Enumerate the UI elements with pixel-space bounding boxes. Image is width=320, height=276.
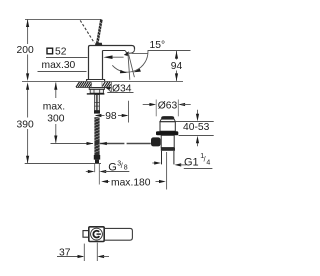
hole edges — [91, 82, 93, 88]
drain body below flange — [161, 135, 174, 147]
rod reference line left part — [51, 143, 94, 145]
dim line max.300 vertical — [55, 83, 57, 143]
arc arrowhead left pointing right — [120, 70, 127, 73]
15 deg label line — [148, 50, 191, 52]
svg-text:94: 94 — [171, 61, 183, 72]
svg-text:52: 52 — [55, 47, 67, 58]
side knob on drain — [151, 137, 161, 146]
top view: cartridge circle outer — [91, 228, 103, 240]
spout tip reference line — [132, 52, 148, 54]
svg-text:390: 390 — [17, 120, 34, 131]
label G1 1/4 with underline — [184, 153, 210, 168]
svg-text:Ø63: Ø63 — [158, 100, 178, 111]
arrow down 200 at deck — [26, 73, 29, 81]
arrow down 94 — [175, 73, 178, 81]
deck section hatch left — [76, 82, 92, 87]
svg-text:/: / — [204, 157, 206, 164]
arc arrowhead right pointing left — [134, 69, 141, 73]
spout outlet lip — [125, 50, 134, 54]
stud threaded section — [94, 117, 99, 155]
drain center line — [166, 152, 168, 190]
svg-text:max.180: max.180 — [111, 177, 151, 188]
knob flare — [160, 119, 176, 122]
drain body upper cylinder — [160, 122, 175, 132]
dim 37 line with label — [57, 256, 83, 258]
bottom reference line 390 — [25, 163, 101, 165]
svg-text:37: 37 — [59, 247, 71, 258]
svg-text:max.30: max.30 — [42, 60, 76, 71]
arrow right at stud on rod line — [87, 142, 94, 145]
label G3/8 — [108, 160, 128, 173]
top view: spout bar — [104, 228, 132, 240]
mounting nut — [90, 89, 103, 93]
dim line 200/390 vertical — [27, 19, 29, 163]
angle arc — [112, 50, 148, 72]
arrow down 390 bottom — [26, 156, 29, 164]
spout underside — [103, 50, 126, 52]
drain pull knob cap — [161, 116, 174, 119]
arrow down max300 at rod line — [54, 136, 57, 144]
svg-text:40-53: 40-53 — [183, 122, 210, 133]
faucet body outline — [89, 46, 135, 80]
mounting washer below deck — [89, 88, 104, 90]
drain body bottom nut band — [161, 148, 175, 151]
drain flange — [156, 131, 178, 135]
leader line for 52 — [46, 57, 88, 59]
svg-text:98: 98 — [105, 111, 117, 122]
arrow up 200 top — [26, 19, 29, 27]
drain: dim O63 — [143, 104, 153, 106]
dim G1 1/4 arrows at tailpipe — [152, 162, 158, 164]
svg-text:G1: G1 — [184, 156, 199, 168]
15 degree ray vertical — [128, 54, 130, 80]
stud upper plain section — [95, 95, 100, 111]
rod reference line right part — [100, 143, 125, 145]
15 degree ray tilted — [129, 54, 135, 77]
svg-text:8: 8 — [124, 164, 128, 171]
dim 37 ext lines — [83, 244, 85, 261]
svg-text:300: 300 — [47, 114, 64, 125]
leader line for max.30 — [38, 71, 87, 73]
dim 98 horizontal — [96, 115, 105, 117]
stud wall extension lines below — [94, 164, 96, 172]
top view: base square — [89, 227, 104, 242]
lever solid hatched bar — [97, 20, 101, 45]
svg-text:max.: max. — [43, 101, 65, 112]
lever alternate position dashed — [80, 20, 94, 43]
arrow up 94 — [175, 51, 178, 59]
top view: cartridge ring G — [93, 231, 99, 238]
lever base — [95, 43, 103, 46]
body right edge — [102, 51, 104, 80]
top extension line at lever tip — [25, 18, 102, 20]
deck section hatch right — [102, 82, 110, 87]
dim 40-53 ext top — [176, 121, 214, 123]
dim G3/8 — [86, 171, 92, 173]
svg-text:G: G — [108, 162, 117, 174]
arrow pointing left under spout — [107, 56, 124, 58]
label square-52 — [47, 47, 67, 58]
stud coupling band — [94, 111, 100, 114]
arrow up 390 at deck — [26, 82, 29, 90]
stud end cap — [94, 155, 100, 160]
dim 40-53 ext bottom — [179, 135, 214, 137]
deck bottom line — [76, 86, 111, 88]
svg-text:200: 200 — [17, 45, 34, 56]
drain tailpipe — [161, 151, 163, 165]
ext line for 98 at spout center — [128, 101, 130, 123]
dim 40-53 vertical with arrows — [197, 110, 199, 146]
arrow up max300 at deck — [54, 82, 57, 90]
top view: left tab — [83, 231, 89, 238]
dim max.180 — [103, 181, 110, 183]
lower washer band — [87, 93, 105, 94]
deck line — [22, 80, 183, 82]
svg-text:/: / — [121, 163, 123, 170]
dim 94 vertical — [176, 51, 178, 81]
svg-text:4: 4 — [206, 160, 210, 167]
water direction arrow at outlet — [124, 51, 129, 56]
base plate — [87, 80, 105, 82]
svg-text:15°: 15° — [150, 40, 166, 51]
